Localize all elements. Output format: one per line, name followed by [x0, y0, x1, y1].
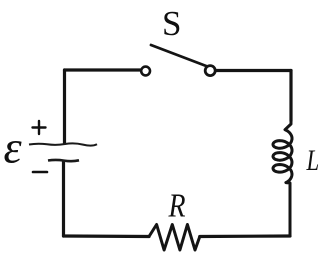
battery positive plate (long)	[29, 143, 97, 145]
svg-text:S: S	[162, 4, 181, 43]
svg-text:R: R	[168, 186, 186, 224]
wire left vertical lower (battery - terminal)	[62, 162, 65, 236]
wire top-right horizontal	[216, 69, 292, 72]
wire top-left horizontal	[65, 68, 141, 71]
inductor L coil	[273, 121, 292, 236]
switch blade	[151, 45, 208, 67]
wire bottom-left horizontal	[64, 234, 150, 238]
wire right vertical upper	[289, 71, 292, 122]
svg-text:ε: ε	[4, 122, 23, 173]
wire left vertical upper (battery + terminal)	[63, 70, 66, 143]
switch left contact circle	[141, 67, 150, 76]
switch right contact circle	[205, 66, 215, 76]
wire bottom-right horizontal	[200, 234, 290, 238]
svg-text:L: L	[306, 143, 320, 177]
battery negative plate (short)	[48, 160, 79, 161]
minus sign	[33, 171, 47, 174]
plus sign	[33, 121, 46, 134]
resistor R zigzag	[149, 225, 200, 251]
